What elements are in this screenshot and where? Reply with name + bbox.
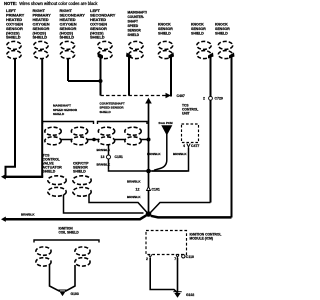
- bracket countershaft speed sensor shield: [98, 122, 148, 125]
- svg-text:C477: C477: [191, 144, 200, 148]
- ICM pin 7 connector symbol: [176, 255, 179, 258]
- shield right primary HO2S: [34, 41, 48, 58]
- svg-text:C110: C110: [186, 255, 195, 259]
- off-page arrow ground bus: [1, 217, 6, 222]
- shield mainshaft B: [71, 127, 87, 145]
- svg-text:C407: C407: [177, 94, 186, 98]
- shield countershaft B: [125, 127, 141, 145]
- shield left primary HO2S: [7, 41, 21, 58]
- from PCM arrow: [161, 125, 172, 135]
- wire left primary HO2S shield down: [6, 59, 16, 177]
- svg-text:from PCM: from PCM: [159, 121, 174, 125]
- svg-text:BRN/BLK: BRN/BLK: [97, 148, 111, 152]
- wire knock 1 down to C407: [170, 56, 172, 97]
- ground bus right segment: [151, 216, 232, 218]
- svg-text:G102: G102: [186, 293, 194, 297]
- ground G102: [173, 292, 194, 298]
- shield knock sensor 3: [218, 41, 232, 58]
- svg-text:C729: C729: [215, 97, 224, 101]
- svg-text:2: 2: [146, 257, 149, 261]
- svg-text:BRN/BLK: BRN/BLK: [97, 162, 111, 166]
- wire chain A3-A4: [114, 139, 126, 141]
- svg-text:BRN/BLK: BRN/BLK: [127, 180, 141, 184]
- wire chain A1-A2: [61, 139, 73, 141]
- svg-text:KNOCK SENSOR SHIELD: KNOCK SENSOR SHIELD: [158, 23, 174, 36]
- wire chain A4-trunk: [141, 139, 149, 141]
- wire left secondary HO2S shield down to C407: [100, 57, 102, 96]
- connector C161 symbol: [147, 187, 151, 191]
- wire CKP/CYP shield down: [89, 195, 147, 213]
- svg-text:BRN/BLK: BRN/BLK: [173, 152, 187, 156]
- wire O2 shields to off-page left: [5, 176, 44, 178]
- svg-text:C161: C161: [152, 188, 161, 192]
- wire attach blob knock 2: [208, 53, 214, 59]
- TCS control unit dashed box: [182, 124, 199, 143]
- wire right secondary HO2S shield down: [67, 59, 69, 82]
- wire ignition coil shield 2 down: [65, 265, 75, 291]
- wire knock2 return to junction: [151, 203, 211, 213]
- connector C407 arrowhead: [166, 93, 172, 98]
- svg-text:BRN/BLK: BRN/BLK: [147, 152, 161, 156]
- wire right secondary to left secondary horizontal: [68, 80, 101, 82]
- wire attach blob shield 5: [126, 53, 132, 59]
- wire right primary HO2S shield down: [41, 59, 43, 177]
- svg-text:G103: G103: [71, 292, 79, 296]
- shield knock sensor 1: [158, 41, 172, 58]
- wire attach blob knock 1: [169, 53, 175, 59]
- wire attach blob knock 3: [229, 53, 235, 59]
- junction chain to trunk: [147, 138, 151, 142]
- wire speed sensor shield down to C407: [128, 57, 130, 96]
- shield ignition coil 1: [36, 247, 51, 266]
- svg-text:12: 12: [136, 188, 141, 192]
- shield mainshaft A: [45, 127, 61, 145]
- wire ICM pin 2 ground: [150, 258, 177, 293]
- wire ignition coil shield 1 down: [50, 265, 60, 291]
- off-page arrow O2 shields: [1, 174, 6, 179]
- trunk ground wire down: [148, 100, 150, 214]
- junction O2 shields: [99, 79, 103, 83]
- shield ignition coil 2: [75, 247, 90, 266]
- connector C729 symbol: [209, 96, 213, 100]
- connector C407 dashed line: [101, 95, 167, 97]
- shield countershaft A: [98, 127, 114, 145]
- main ground junction: [146, 211, 152, 217]
- shield left secondary HO2S: [98, 41, 112, 58]
- svg-text:KNOCK SENSOR SHIELD: KNOCK SENSOR SHIELD: [191, 23, 207, 36]
- shield CKP/CYP sensor: [73, 176, 91, 196]
- junction trunk mid: [146, 169, 151, 174]
- svg-text:4: 4: [183, 144, 186, 148]
- wire ICM pin 7 ground: [177, 258, 179, 293]
- wire knock 3 down: [231, 56, 233, 218]
- wire chain A2-A3: [87, 139, 99, 141]
- shield right secondary HO2S: [60, 41, 74, 58]
- ICM pin 2 connector symbol: [149, 255, 152, 258]
- wire attach blob shield 4: [98, 53, 104, 59]
- wire shield to C151 down: [108, 145, 110, 170]
- svg-text:C151: C151: [115, 155, 124, 159]
- trunk wire arrowhead at C407: [145, 98, 152, 104]
- connector C110 symbol: [182, 255, 185, 258]
- svg-text:NOTE: Wires shown without col: NOTE: Wires shown without color codes ar…: [4, 1, 98, 6]
- ground bus left segment: [5, 215, 147, 219]
- svg-text:2: 2: [203, 97, 206, 101]
- wire C151 drop to trunk horizontal: [109, 170, 188, 171]
- wire TCS valve shield down: [64, 195, 144, 214]
- bracket ignition coil shield: [34, 240, 99, 243]
- shield mainshaft/countershaft speed sensor: [129, 41, 143, 58]
- ground G103: [58, 290, 79, 296]
- connector C477 symbol: [187, 144, 190, 148]
- ignition control module dashed box: [146, 231, 187, 255]
- svg-text:KNOCK SENSOR SHIELD: KNOCK SENSOR SHIELD: [215, 23, 231, 36]
- junction chain A: [92, 138, 96, 142]
- svg-text:BRN/BLK: BRN/BLK: [127, 195, 141, 199]
- bracket mainshaft speed sensor shield: [43, 122, 94, 125]
- wire TCS control unit ground: [152, 148, 189, 172]
- svg-text:13: 13: [101, 155, 106, 159]
- shield TCS control valve actuator: [48, 176, 66, 196]
- svg-text:BRN/BLK: BRN/BLK: [21, 212, 35, 216]
- wire knock 2 down: [210, 56, 212, 203]
- connector C151 symbol: [107, 155, 111, 159]
- wire from PCM down: [154, 134, 167, 170]
- shield knock sensor 2: [197, 41, 211, 58]
